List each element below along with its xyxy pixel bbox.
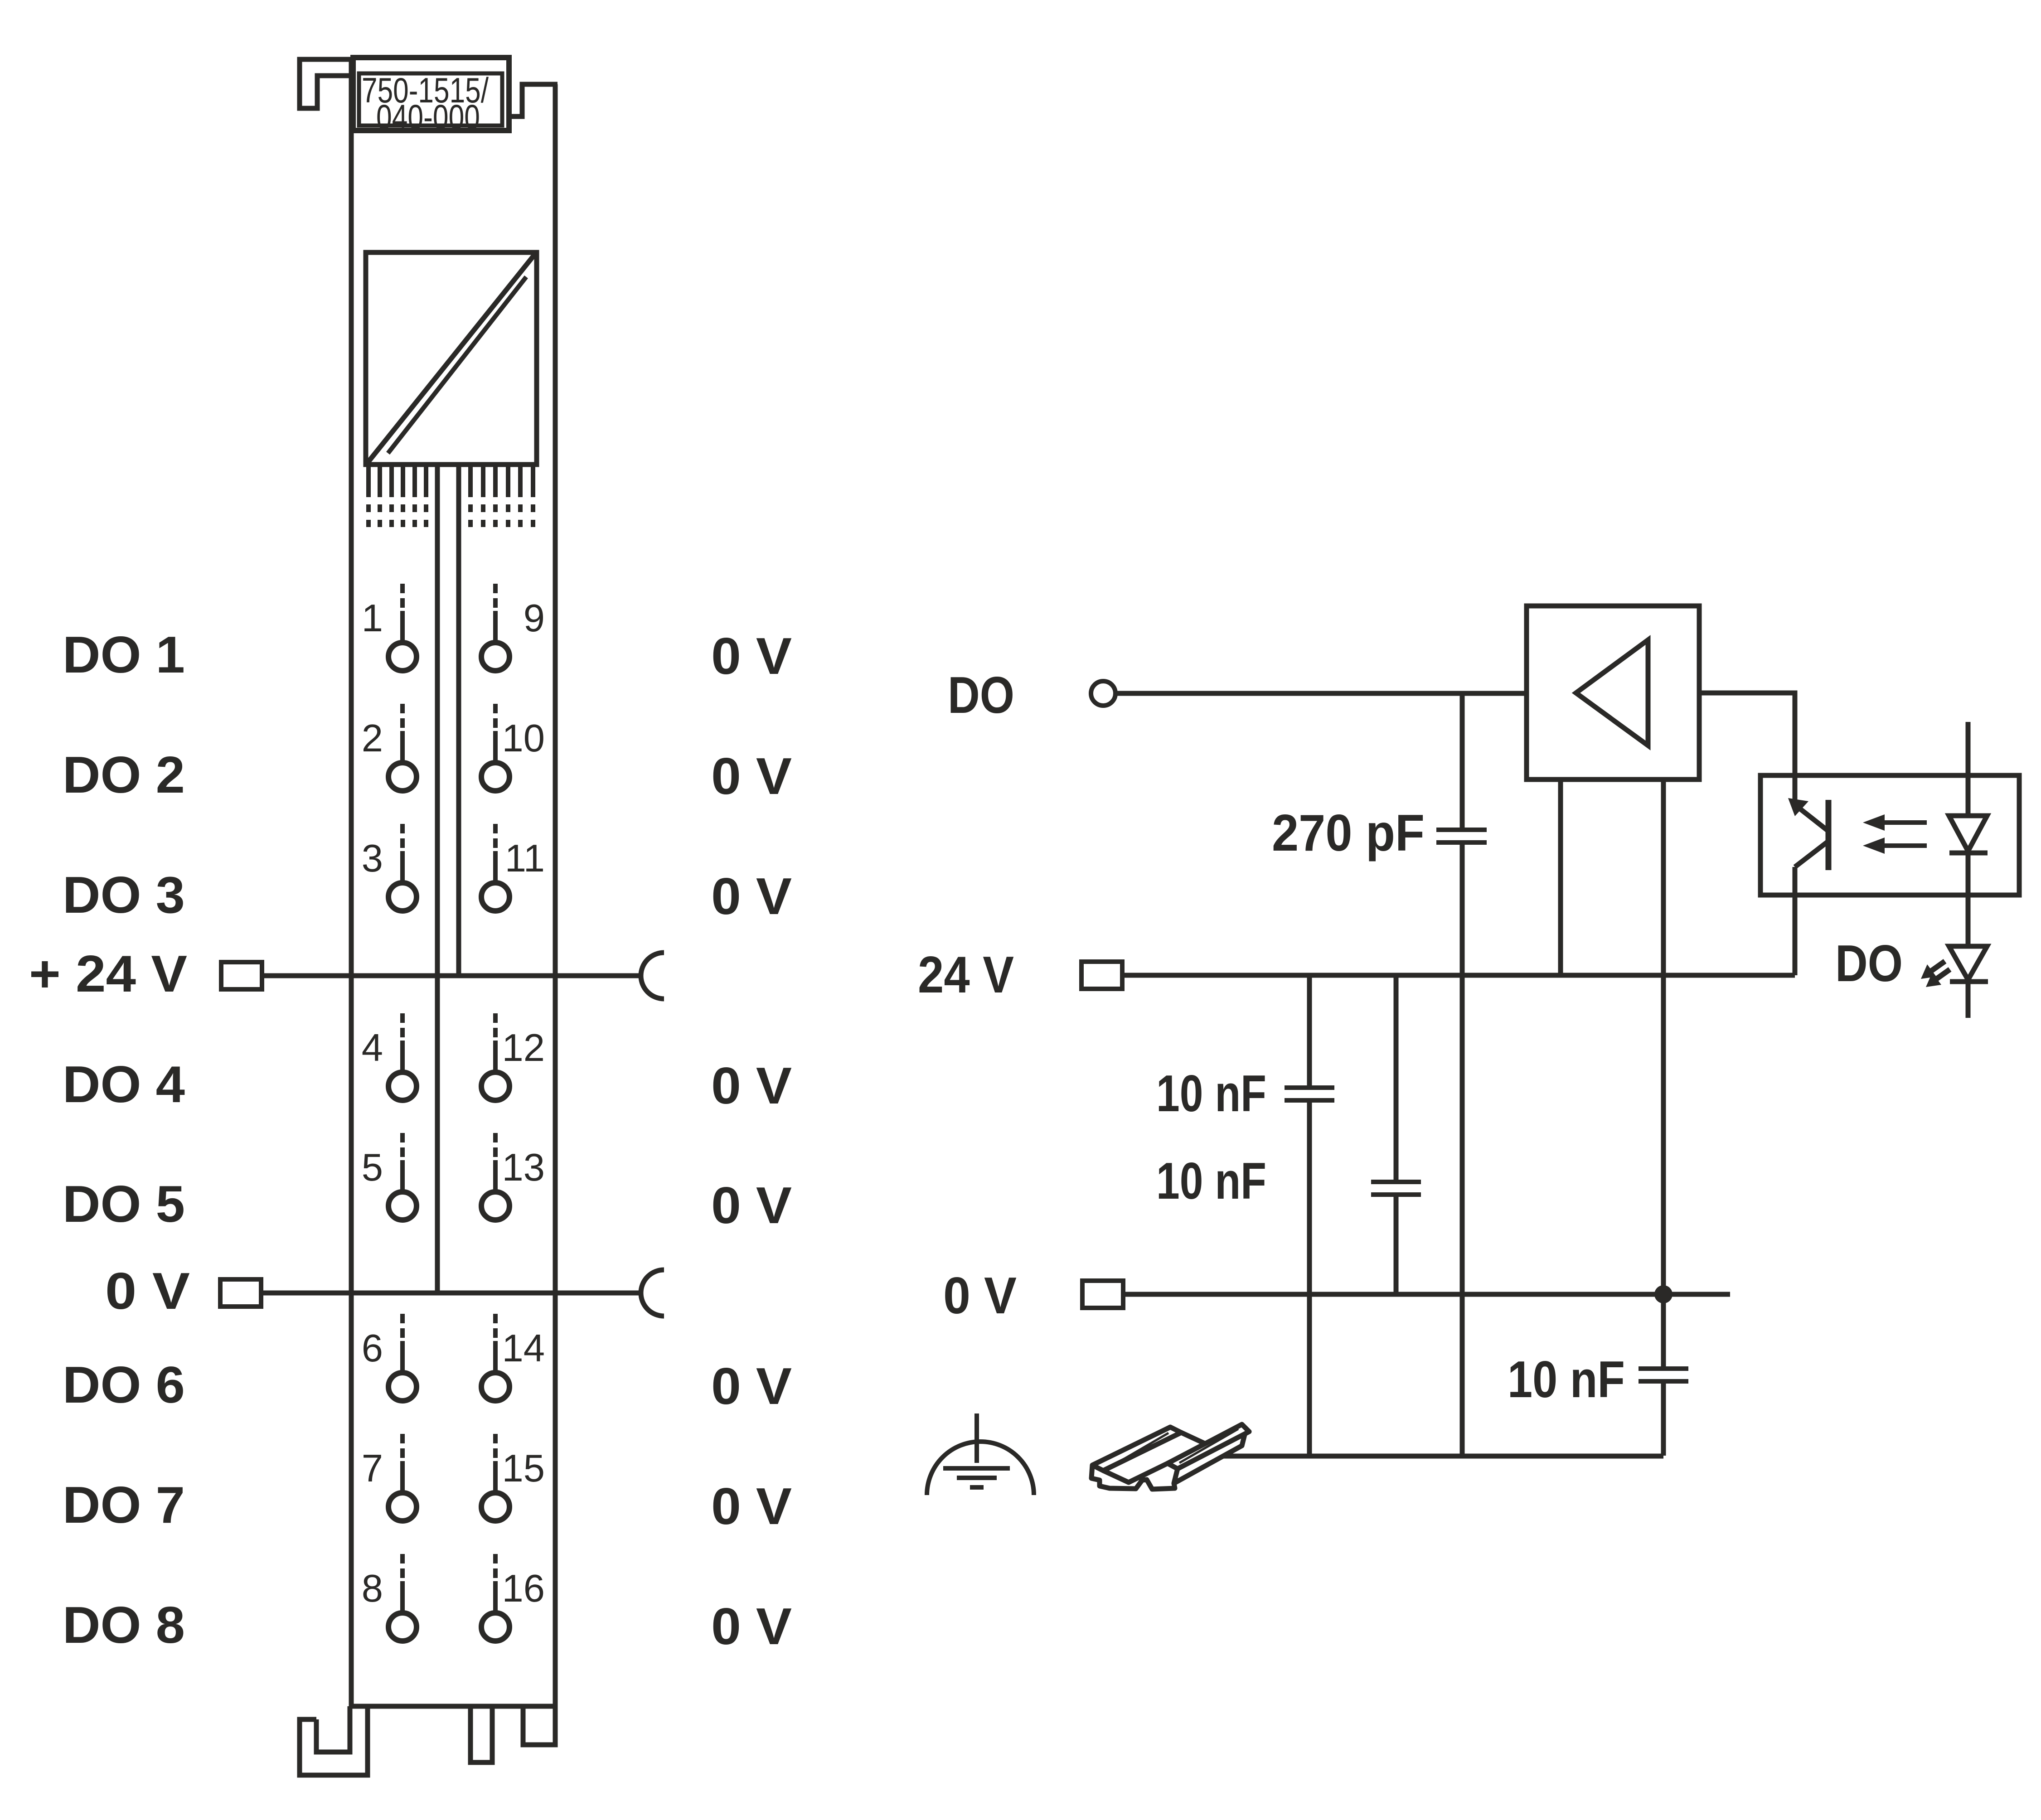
terminal 16 [481,1554,545,1641]
svg-text:DO 7: DO 7 [63,1476,185,1534]
svg-text:DO 5: DO 5 [63,1176,185,1233]
internal +24V feed wire [456,465,461,976]
top-right housing step [509,84,558,116]
module body right edge [553,84,558,1706]
top-left mounting hook [300,59,352,108]
svg-text:0 V: 0 V [711,868,792,925]
terminal 11 [481,824,545,911]
svg-text:040-000: 040-000 [376,97,480,137]
module bottom edge [351,1704,555,1709]
svg-text:5: 5 [362,1146,383,1189]
capacitor 10nF C3 branch lower [1661,1384,1666,1456]
svg-text:0 V: 0 V [711,628,792,685]
IR LED D1 [1949,816,1988,853]
electronics function block [366,252,537,465]
terminal 14 [481,1314,545,1401]
svg-text:DO 4: DO 4 [63,1056,185,1113]
capacitor 10nF C3 [1639,1369,1688,1381]
bottom left mounting foot [300,1706,368,1775]
terminal 12 [481,1013,545,1100]
capacitor 10nF C1 branch lower [1307,1103,1312,1456]
wire +24V rail [262,973,641,978]
0V rail socket arc [641,1270,664,1316]
order number label outer box [353,58,509,131]
terminal 4 [362,1013,417,1100]
svg-text:6: 6 [362,1327,383,1370]
svg-text:1: 1 [362,597,383,640]
order number label inner box [359,73,502,126]
svg-text:DO 3: DO 3 [63,866,185,924]
amplifier triangle [1576,640,1648,745]
junction dot 0V node [1654,1285,1673,1303]
DO input terminal circle [1091,681,1115,706]
svg-text:0 V: 0 V [711,1478,792,1535]
capacitor 10nF C2 branch lower [1394,1197,1399,1294]
wire between LEDs [1966,855,1971,946]
amp pin to +24V rail [1558,779,1563,975]
wire 0V rail [261,1291,641,1296]
terminal 10 [481,704,545,791]
bottom right tab [523,1706,555,1745]
amplifier block U1 [1527,606,1699,779]
wire 24V rail (schematic) [1122,973,1795,978]
svg-text:+ 24 V: + 24 V [29,945,187,1003]
function block second diagonal [388,277,526,453]
svg-text:12: 12 [502,1026,545,1070]
wire DO input [1115,691,1527,696]
terminal 2 [362,704,417,791]
module body left edge [349,58,354,1706]
optocoupler box [1760,775,2019,895]
svg-text:DO 2: DO 2 [63,746,185,804]
svg-text:270 pF: 270 pF [1272,804,1425,862]
0V connector box (schematic) [1082,1281,1123,1308]
svg-text:8: 8 [362,1567,383,1610]
wire 270pF branch lower to ground rail [1460,845,1465,1456]
wire ground rail [1224,1454,1663,1459]
capacitor 10nF C1 [1285,1088,1334,1100]
capacitor 10nF C2 [1371,1182,1421,1195]
svg-text:2: 2 [362,717,383,760]
svg-text:10 nF: 10 nF [1156,1065,1266,1123]
24V connector box (schematic) [1081,962,1122,989]
terminal 15 [481,1434,545,1521]
terminal 8 [362,1554,417,1641]
terminal 3 [362,824,417,911]
svg-text:11: 11 [505,837,545,880]
terminal 6 [362,1314,417,1401]
terminal 1 [362,584,417,671]
+24V rail socket arc [641,953,664,999]
svg-text:0 V: 0 V [711,1598,792,1655]
svg-text:0 V: 0 V [711,1358,792,1415]
svg-text:4: 4 [362,1026,383,1070]
IR LED D1 wire upper [1966,722,1971,816]
svg-text:DO: DO [948,667,1014,724]
svg-text:10 nF: 10 nF [1156,1152,1266,1210]
wire 270pF branch upper [1460,693,1465,828]
0V connector box [220,1279,261,1307]
svg-text:0 V: 0 V [711,1177,792,1234]
terminal 9 [481,584,545,671]
capacitor 10nF C1 branch upper [1307,975,1312,1086]
svg-text:10: 10 [502,717,545,760]
function block diagonal [368,254,535,463]
+24V connector box [221,962,262,989]
status LED D2 [1949,946,1988,982]
amp output wire to optocoupler [1699,693,1795,775]
status LED wire lower [1966,984,1971,1018]
phototransistor Q1 [1788,775,1828,975]
functional earth symbol [927,1413,1034,1495]
status LED flash arrows [1921,961,1950,987]
svg-text:0 V: 0 V [711,1057,792,1115]
capacitor 270 pF [1436,830,1487,842]
terminal 13 [481,1133,545,1220]
terminal 7 [362,1434,417,1521]
svg-text:7: 7 [362,1447,383,1490]
svg-text:DO 1: DO 1 [63,626,185,684]
bottom middle tab [470,1706,492,1762]
svg-text:3: 3 [362,837,383,880]
capacitor 10nF C3 branch upper [1661,1294,1666,1367]
amp pin to 0V junction [1661,779,1666,1294]
svg-text:10 nF: 10 nF [1508,1351,1625,1409]
function block left pin group with dashes [368,465,426,527]
svg-text:DO 6: DO 6 [63,1356,185,1414]
capacitor 10nF C2 branch upper [1394,975,1399,1180]
svg-text:0 V: 0 V [711,748,792,805]
internal 0V feed wire [435,465,440,1293]
svg-text:DO: DO [1835,935,1903,992]
svg-text:24 V: 24 V [918,946,1014,1004]
terminal 5 [362,1133,417,1220]
svg-text:DO 8: DO 8 [63,1597,185,1654]
svg-text:0 V: 0 V [943,1267,1017,1325]
function block right pin group with dashes [470,465,533,527]
svg-text:16: 16 [502,1567,545,1610]
svg-text:14: 14 [502,1327,545,1370]
svg-text:9: 9 [524,597,545,640]
svg-text:15: 15 [502,1447,545,1490]
wire 0V rail (schematic) [1123,1292,1730,1297]
DIN rail chassis icon [1091,1424,1249,1489]
optocoupler light arrows [1863,814,1927,854]
svg-text:0 V: 0 V [105,1263,190,1320]
svg-text:13: 13 [502,1146,545,1189]
